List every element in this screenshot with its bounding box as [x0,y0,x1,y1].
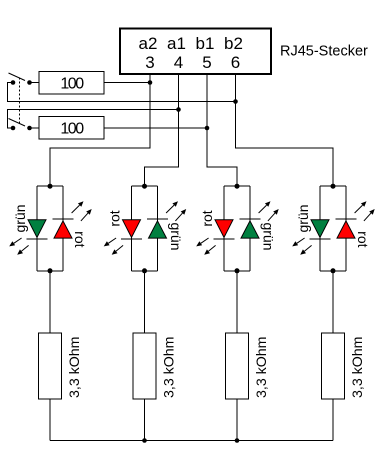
svg-text:b1: b1 [196,34,215,53]
resistor R1 100 [39,72,104,95]
junction dot pin3/R1 [148,80,153,85]
emission arrows D2a [104,238,123,255]
LED D2b gr&#252;n (up) [149,221,167,238]
switch S1b contact dots [11,126,32,131]
svg-text:grün: grün [168,222,184,250]
emission arrows D4b [355,201,375,221]
emission arrows D4a [292,238,311,255]
resistor R4 3,3 kOhm [133,333,156,399]
cathode bar D2b [147,218,168,220]
svg-text:3,3 kOhm: 3,3 kOhm [162,336,178,398]
svg-text:a1: a1 [167,34,186,53]
wire D3 to R5 [236,271,238,333]
node dot D4 top [331,184,336,189]
wire switch S1a left to pin 6 [8,83,236,102]
svg-text:grün: grün [12,204,28,232]
svg-text:3: 3 [145,53,154,72]
wire D4 to R6 [332,271,334,333]
junction dot pin4 [176,107,181,112]
node dot D4 bottom [331,268,336,273]
svg-text:100: 100 [60,76,84,93]
wire switch S1b to R2 [30,127,40,129]
emission arrows D1b [72,201,92,221]
svg-text:6: 6 [231,53,240,72]
wire D1 to R3 [49,271,51,333]
switch S1b blade [9,119,26,127]
cathode bar D1a [27,238,48,240]
wire R2 to pin 5 [104,127,207,129]
svg-text:grün: grün [295,204,311,232]
LED block D2 outline [132,186,158,271]
emission arrows D3a [196,238,215,255]
node dot D2 top [142,184,147,189]
svg-text:rot: rot [199,210,215,226]
LED block D1 outline [37,186,63,271]
RJ45 connector box [120,29,271,75]
wire R4 to bottom rail [144,399,146,441]
LED D3a rot (down) [215,220,233,238]
LED block D4 outline [320,186,346,271]
LED D3b gr&#252;n (up) [241,221,259,238]
svg-text:rot: rot [355,231,371,247]
svg-text:b2: b2 [224,34,243,53]
cathode bar D4a [310,238,331,240]
svg-text:rot: rot [72,231,88,247]
node dot D3 top [235,184,240,189]
resistor R6 3,3 kOhm [322,333,345,399]
emission arrows D2b [166,201,186,221]
wire R5 to bottom rail [236,399,238,441]
resistor R2 100 [39,117,104,140]
switch gang link (dashed) [19,78,21,125]
wire pin 3 to LED block D1 [50,75,150,186]
wire D2 to R4 [144,271,146,333]
wire R6 to bottom rail [332,399,334,441]
wire pin 4 to LED block D2 [145,75,179,186]
node dot D3 bottom [235,268,240,273]
node dot D2 bottom [142,268,147,273]
bottom rail wire [50,440,333,442]
svg-text:3,3 kOhm: 3,3 kOhm [254,336,270,398]
svg-text:3,3 kOhm: 3,3 kOhm [67,336,83,398]
svg-text:grün: grün [261,222,277,250]
wire R3 to bottom rail [49,399,51,441]
emission arrows D3b [259,201,279,221]
switch S1a blade [9,73,26,81]
switch S1a contact dots [11,80,32,85]
cathode bar D2a [121,238,142,240]
svg-text:5: 5 [202,53,211,72]
LED D4a gr&#252;n (down) [311,220,329,238]
LED D4b rot (up) [337,221,355,238]
junction dot pin5/R2 [205,126,210,131]
emission arrows D1a [9,238,28,255]
cathode bar D3a [214,238,235,240]
cathode bar D3b [240,218,261,220]
LED D1b rot (up) [54,221,72,238]
resistor R5 3,3 kOhm [226,333,249,399]
wire switch S1b left to pin 4 [8,110,179,129]
resistor R3 3,3 kOhm [39,333,62,399]
junction dot rail/R4 [142,438,147,443]
svg-text:a2: a2 [139,34,158,53]
svg-text:100: 100 [60,121,84,138]
node dot D1 bottom [48,268,53,273]
svg-text:4: 4 [174,53,183,72]
wire pin 5 to LED block D3 [207,75,237,186]
LED D1a gr&#252;n (down) [28,220,46,238]
wire R1 to pin 3 [104,82,150,84]
wire pin 6 to LED block D4 [236,75,334,186]
wire switch S1a to R1 [30,82,40,84]
LED D2a rot (down) [123,220,141,238]
svg-text:RJ45-Stecker: RJ45-Stecker [280,44,368,60]
cathode bar D4b [336,218,357,220]
svg-text:rot: rot [107,210,123,226]
cathode bar D1b [53,218,74,220]
LED block D3 outline [224,186,250,271]
node dot D1 top [48,184,53,189]
junction dot rail/R5 [235,438,240,443]
svg-text:3,3 kOhm: 3,3 kOhm [350,336,366,398]
junction dot pin6 [233,99,238,104]
